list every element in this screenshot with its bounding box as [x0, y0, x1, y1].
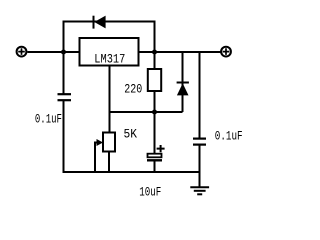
wire output node down to resistor — [154, 52, 156, 70]
capacitor 10uF electrolytic — [147, 145, 165, 160]
potentiometer 5K body — [103, 133, 115, 152]
regulator U1 LM317 — [80, 38, 139, 66]
diode D1 (reverse protection, pointing left) — [94, 16, 106, 29]
wire output rail — [139, 51, 221, 53]
svg-text:LM317: LM317 — [94, 52, 125, 66]
capacitor 0.1uF input — [58, 94, 72, 100]
wire output cap bottom to ground — [199, 145, 201, 187]
capacitor 0.1uF output — [193, 139, 206, 145]
wire 10uF bottom to ground rail — [154, 161, 156, 173]
diode D2 (adjust protection, pointing up) — [177, 83, 189, 96]
wire adjust pin down to potentiometer — [109, 65, 111, 133]
wire wiper down to ground rail — [94, 142, 96, 174]
wire input terminal to regulator input — [27, 51, 80, 53]
terminal + input — [17, 47, 27, 57]
junction output node — [152, 50, 157, 55]
junction adjust node — [152, 110, 157, 115]
wire ground rail — [63, 171, 200, 173]
wire resistor bottom to adjust node / 10uF cap — [154, 90, 156, 154]
svg-text:0.1uF: 0.1uF — [35, 112, 62, 126]
wire adjust node horizontal branch — [110, 111, 183, 113]
wire output rail down to output cap — [199, 52, 201, 138]
junction input node — [61, 50, 66, 55]
wire top rail of protection-diode loop — [63, 21, 156, 23]
wire vertical input node (diode loop left / down to input cap) — [63, 22, 65, 95]
svg-text:220: 220 — [124, 83, 142, 97]
potentiometer wiper arrow — [95, 139, 103, 146]
wire input cap bottom to ground rail — [63, 101, 65, 173]
ground — [190, 187, 209, 194]
resistor 220 — [148, 69, 161, 91]
terminal + output — [221, 47, 231, 57]
svg-text:10uF: 10uF — [139, 186, 161, 200]
wire output rail down to diode D2 — [182, 52, 184, 112]
svg-text:0.1uF: 0.1uF — [215, 129, 243, 143]
svg-text:5K: 5K — [124, 128, 138, 142]
wire potentiometer bottom to ground rail — [108, 151, 110, 173]
wire diode loop right drop to output node — [154, 22, 156, 53]
